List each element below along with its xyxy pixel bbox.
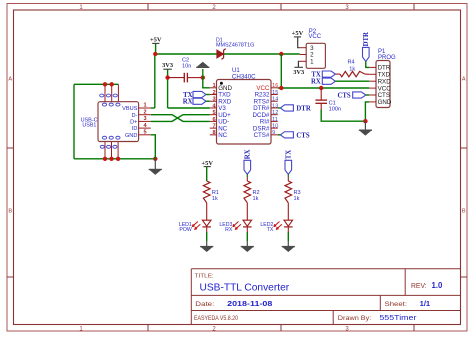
svg-text:1.0: 1.0	[432, 281, 444, 290]
svg-text:CTS: CTS	[296, 132, 309, 139]
svg-text:1k: 1k	[212, 196, 218, 202]
svg-text:RX: RX	[311, 79, 321, 86]
svg-text:Date:: Date:	[195, 301, 214, 308]
svg-text:3V3: 3V3	[162, 62, 173, 69]
svg-text:A: A	[8, 76, 12, 82]
svg-text:15: 15	[272, 90, 278, 96]
svg-text:CTS: CTS	[337, 92, 350, 99]
svg-text:VCC: VCC	[308, 34, 321, 40]
svg-text:DTR: DTR	[296, 105, 310, 112]
svg-text:5: 5	[144, 130, 147, 136]
svg-text:VBUS: VBUS	[122, 106, 138, 112]
svg-text:3: 3	[212, 97, 215, 103]
svg-text:DTR: DTR	[363, 32, 370, 46]
svg-text:RX: RX	[225, 227, 233, 233]
svg-text:GND: GND	[125, 133, 137, 139]
svg-text:A: A	[462, 76, 466, 82]
svg-text:RX: RX	[245, 149, 252, 159]
svg-text:10: 10	[272, 124, 278, 130]
svg-text:1: 1	[310, 59, 314, 66]
svg-text:2: 2	[144, 109, 147, 115]
svg-text:Drawn By:: Drawn By:	[338, 315, 372, 322]
svg-text:5: 5	[212, 110, 215, 116]
svg-text:TX: TX	[267, 227, 274, 233]
svg-text:CTS#: CTS#	[254, 132, 270, 139]
svg-text:R4: R4	[348, 60, 355, 66]
svg-text:+5V: +5V	[201, 160, 213, 167]
svg-text:B: B	[8, 208, 12, 214]
svg-text:MMSZ4678T1G: MMSZ4678T1G	[216, 42, 254, 48]
svg-text:NC: NC	[218, 132, 227, 139]
svg-text:1: 1	[144, 103, 147, 109]
svg-text:16: 16	[272, 83, 278, 89]
svg-text:12: 12	[272, 110, 278, 116]
svg-text:14: 14	[272, 97, 278, 103]
svg-text:9: 9	[272, 130, 275, 136]
svg-text:7: 7	[212, 124, 215, 130]
svg-text:1/1: 1/1	[420, 299, 431, 308]
svg-text:555Timer: 555Timer	[379, 313, 417, 322]
svg-text:D-: D-	[131, 113, 137, 119]
svg-text:3V3: 3V3	[293, 69, 304, 76]
svg-text:100n: 100n	[329, 106, 341, 112]
svg-text:CH340C: CH340C	[232, 74, 256, 81]
svg-text:1k: 1k	[253, 196, 259, 202]
svg-text:3: 3	[144, 116, 147, 122]
svg-text:2018-11-08: 2018-11-08	[227, 299, 272, 308]
svg-text:POW: POW	[179, 227, 191, 233]
svg-text:6: 6	[212, 117, 215, 123]
svg-text:Sheet:: Sheet:	[385, 301, 408, 308]
svg-text:USB1: USB1	[82, 123, 96, 129]
svg-text:+5V: +5V	[292, 30, 304, 37]
svg-text:1k: 1k	[294, 196, 300, 202]
svg-text:PROG: PROG	[378, 55, 396, 61]
svg-text:TITLE:: TITLE:	[195, 274, 214, 280]
svg-text:TX: TX	[286, 150, 293, 160]
svg-text:GND: GND	[378, 99, 392, 106]
svg-text:ID: ID	[132, 126, 138, 132]
svg-text:13: 13	[272, 103, 278, 109]
svg-text:RX: RX	[183, 99, 193, 106]
svg-text:TX: TX	[311, 72, 321, 79]
svg-text:+5V: +5V	[150, 37, 162, 44]
svg-text:8: 8	[212, 130, 215, 136]
svg-text:EASYEDA V5.8.20: EASYEDA V5.8.20	[194, 315, 238, 322]
svg-text:USB-TTL Converter: USB-TTL Converter	[200, 283, 290, 294]
svg-text:B: B	[462, 208, 466, 214]
svg-text:2: 2	[212, 90, 215, 96]
svg-text:10n: 10n	[182, 63, 191, 69]
svg-text:P1: P1	[378, 49, 386, 55]
svg-text:1k: 1k	[349, 66, 355, 72]
svg-text:REV:: REV:	[411, 283, 427, 290]
svg-text:1: 1	[212, 83, 215, 89]
svg-text:11: 11	[272, 117, 278, 123]
svg-text:D+: D+	[130, 120, 137, 126]
